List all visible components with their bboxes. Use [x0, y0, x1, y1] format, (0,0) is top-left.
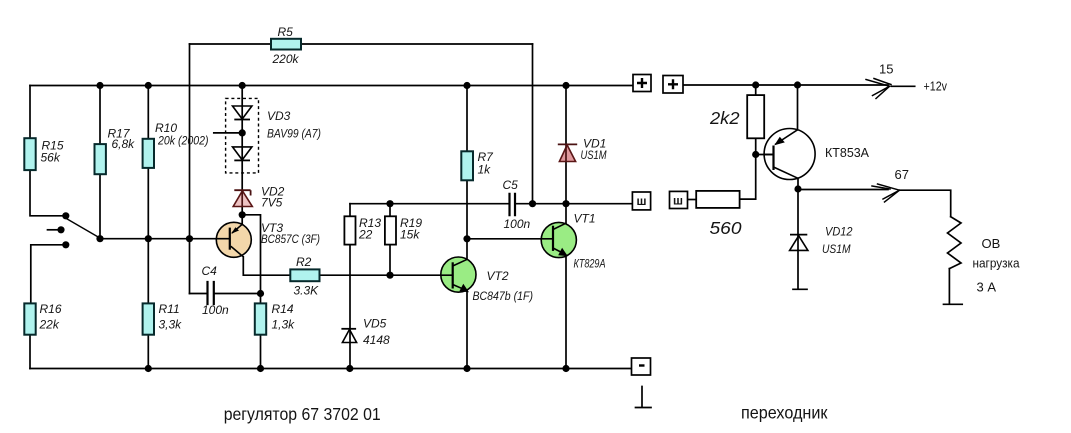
svg-text:67: 67 — [895, 167, 909, 182]
svg-text:15: 15 — [879, 62, 893, 77]
svg-text:VT2: VT2 — [487, 269, 509, 283]
svg-text:6,8k: 6,8k — [112, 137, 136, 151]
svg-text:+12v: +12v — [924, 79, 948, 94]
svg-text:22: 22 — [358, 228, 373, 242]
svg-text:R14: R14 — [272, 302, 294, 316]
svg-text:R11: R11 — [159, 302, 180, 316]
svg-text:US1M: US1M — [822, 242, 851, 256]
svg-text:1,3k: 1,3k — [272, 318, 296, 332]
svg-text:100n: 100n — [504, 217, 531, 231]
svg-text:BC857C (3F): BC857C (3F) — [261, 232, 320, 246]
svg-text:BAV99 (A7): BAV99 (A7) — [267, 127, 321, 141]
svg-text:VD5: VD5 — [363, 317, 387, 331]
svg-text:7V5: 7V5 — [261, 196, 283, 210]
svg-text:22k: 22k — [39, 318, 60, 332]
svg-text:R5: R5 — [278, 25, 294, 39]
svg-text:100n: 100n — [202, 303, 229, 317]
svg-text:VD3: VD3 — [267, 109, 291, 123]
svg-text:2k2: 2k2 — [709, 108, 740, 128]
svg-text:4148: 4148 — [363, 333, 390, 347]
svg-text:560: 560 — [710, 218, 742, 238]
svg-text:3.3K: 3.3K — [294, 284, 320, 298]
svg-text:US1M: US1M — [581, 148, 607, 162]
svg-text:ш: ш — [673, 194, 683, 208]
svg-text:R16: R16 — [40, 302, 62, 316]
svg-text:регулятор 67 3702 01: регулятор 67 3702 01 — [224, 404, 381, 424]
svg-text:КТ853А: КТ853А — [825, 145, 869, 160]
svg-text:20k (2002): 20k (2002) — [157, 134, 208, 148]
svg-text:VT1: VT1 — [574, 212, 596, 226]
svg-text:BC847b (1F): BC847b (1F) — [473, 289, 534, 303]
svg-text:ш: ш — [637, 194, 647, 208]
svg-text:R2: R2 — [296, 255, 312, 269]
svg-text:56k: 56k — [41, 151, 61, 165]
svg-text:220k: 220k — [272, 52, 300, 66]
svg-text:C5: C5 — [503, 178, 519, 192]
svg-text:3 А: 3 А — [977, 280, 997, 295]
svg-text:VD12: VD12 — [825, 225, 853, 239]
svg-text:переходник: переходник — [741, 403, 828, 423]
svg-text:15k: 15k — [400, 228, 420, 242]
svg-text:нагрузка: нагрузка — [973, 256, 1021, 271]
svg-text:3,3k: 3,3k — [159, 318, 183, 332]
svg-text:ОВ: ОВ — [982, 236, 1001, 251]
svg-text:C4: C4 — [202, 264, 218, 278]
svg-text:1k: 1k — [478, 163, 492, 177]
svg-text:КТ829А: КТ829А — [574, 257, 606, 271]
